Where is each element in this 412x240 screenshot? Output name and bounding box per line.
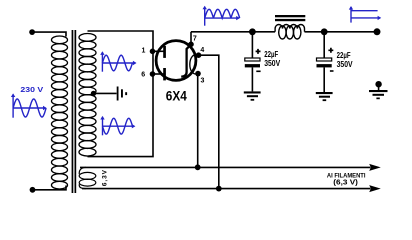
tube plate 2: [163, 68, 166, 80]
tube heater arc: [190, 55, 199, 74]
node pin 4: [196, 52, 202, 58]
ground C1: [244, 91, 261, 100]
wire filament lower: [82, 188, 371, 190]
wire pin6 lead: [153, 73, 165, 75]
ground (center tap, sideways): [117, 87, 127, 101]
label C1 -: [256, 70, 260, 72]
capacitor C2: [317, 58, 332, 67]
arrow filament lower: [369, 185, 381, 192]
wire C2 top: [323, 32, 325, 58]
waveform secondary top half sine: [100, 51, 136, 71]
wire B+ rail: [191, 31, 377, 33]
svg-text:6,3V: 6,3V: [101, 169, 108, 186]
op-amp — tube V1 6X4 envelope: [156, 41, 196, 81]
wire pin4 to filament bottom: [199, 55, 219, 188]
node primary bottom terminal: [30, 187, 36, 193]
node B+ output terminal: [374, 28, 381, 35]
svg-text:6X4: 6X4: [166, 88, 187, 104]
tube cathode: [181, 45, 191, 77]
svg-text:4: 4: [200, 47, 204, 54]
svg-text:(6,3 V): (6,3 V): [333, 179, 358, 186]
ground output: [369, 90, 388, 99]
node pin 6: [150, 71, 156, 77]
inductor L1 core: [275, 15, 305, 21]
wire primary bottom lead: [35, 186, 67, 190]
node rail to C1: [249, 28, 256, 35]
waveform 230V mains sine: [11, 93, 47, 117]
ground C2: [316, 92, 333, 101]
transformer primary winding: [52, 36, 68, 189]
node pin4 junction: [216, 186, 222, 192]
node primary top terminal: [29, 29, 35, 35]
wire pin3 to filament top: [197, 75, 199, 167]
node pin 3: [195, 71, 201, 77]
svg-text:7: 7: [193, 36, 197, 43]
waveform rectified full-wave humps: [203, 6, 240, 26]
wire primary top lead: [35, 32, 67, 36]
node pin3 junction: [195, 164, 201, 170]
transformer HV secondary winding: [79, 34, 96, 157]
node pin 1: [150, 49, 156, 55]
waveform DC flat line: [349, 6, 381, 23]
wire C2 bottom: [323, 67, 325, 92]
arrow filament upper: [369, 164, 381, 171]
node ground output terminal: [375, 81, 381, 87]
wire cathode riser pin7 to rail: [190, 32, 192, 45]
label C1 +: [256, 49, 261, 54]
svg-text:350V: 350V: [264, 58, 280, 68]
svg-text:1: 1: [142, 47, 146, 54]
wire C1 bottom: [251, 67, 253, 91]
tube plate 1: [163, 46, 166, 58]
svg-text:350V: 350V: [337, 59, 353, 69]
wire center tap to ground: [94, 92, 117, 94]
inductor L1 coil: [275, 24, 304, 39]
wire HV secondary to plates (box): [88, 31, 154, 157]
svg-text:6: 6: [141, 71, 145, 78]
wire filament upper: [80, 166, 371, 168]
node pin 7: [188, 42, 194, 48]
label C2 +: [328, 48, 333, 53]
label C2 -: [330, 70, 334, 72]
svg-text:3: 3: [200, 77, 204, 84]
node rail to C2: [321, 28, 328, 35]
transformer 6.3V filament winding: [79, 167, 96, 188]
svg-text:230 V: 230 V: [20, 87, 43, 94]
capacitor C1: [245, 58, 260, 67]
waveform secondary bottom half sine (inverted): [100, 116, 135, 135]
node center tap: [91, 91, 96, 96]
wire ground stem: [378, 84, 380, 90]
wire pin1 lead: [153, 50, 165, 52]
wire C1 top: [251, 32, 253, 58]
transformer core: [72, 30, 77, 193]
